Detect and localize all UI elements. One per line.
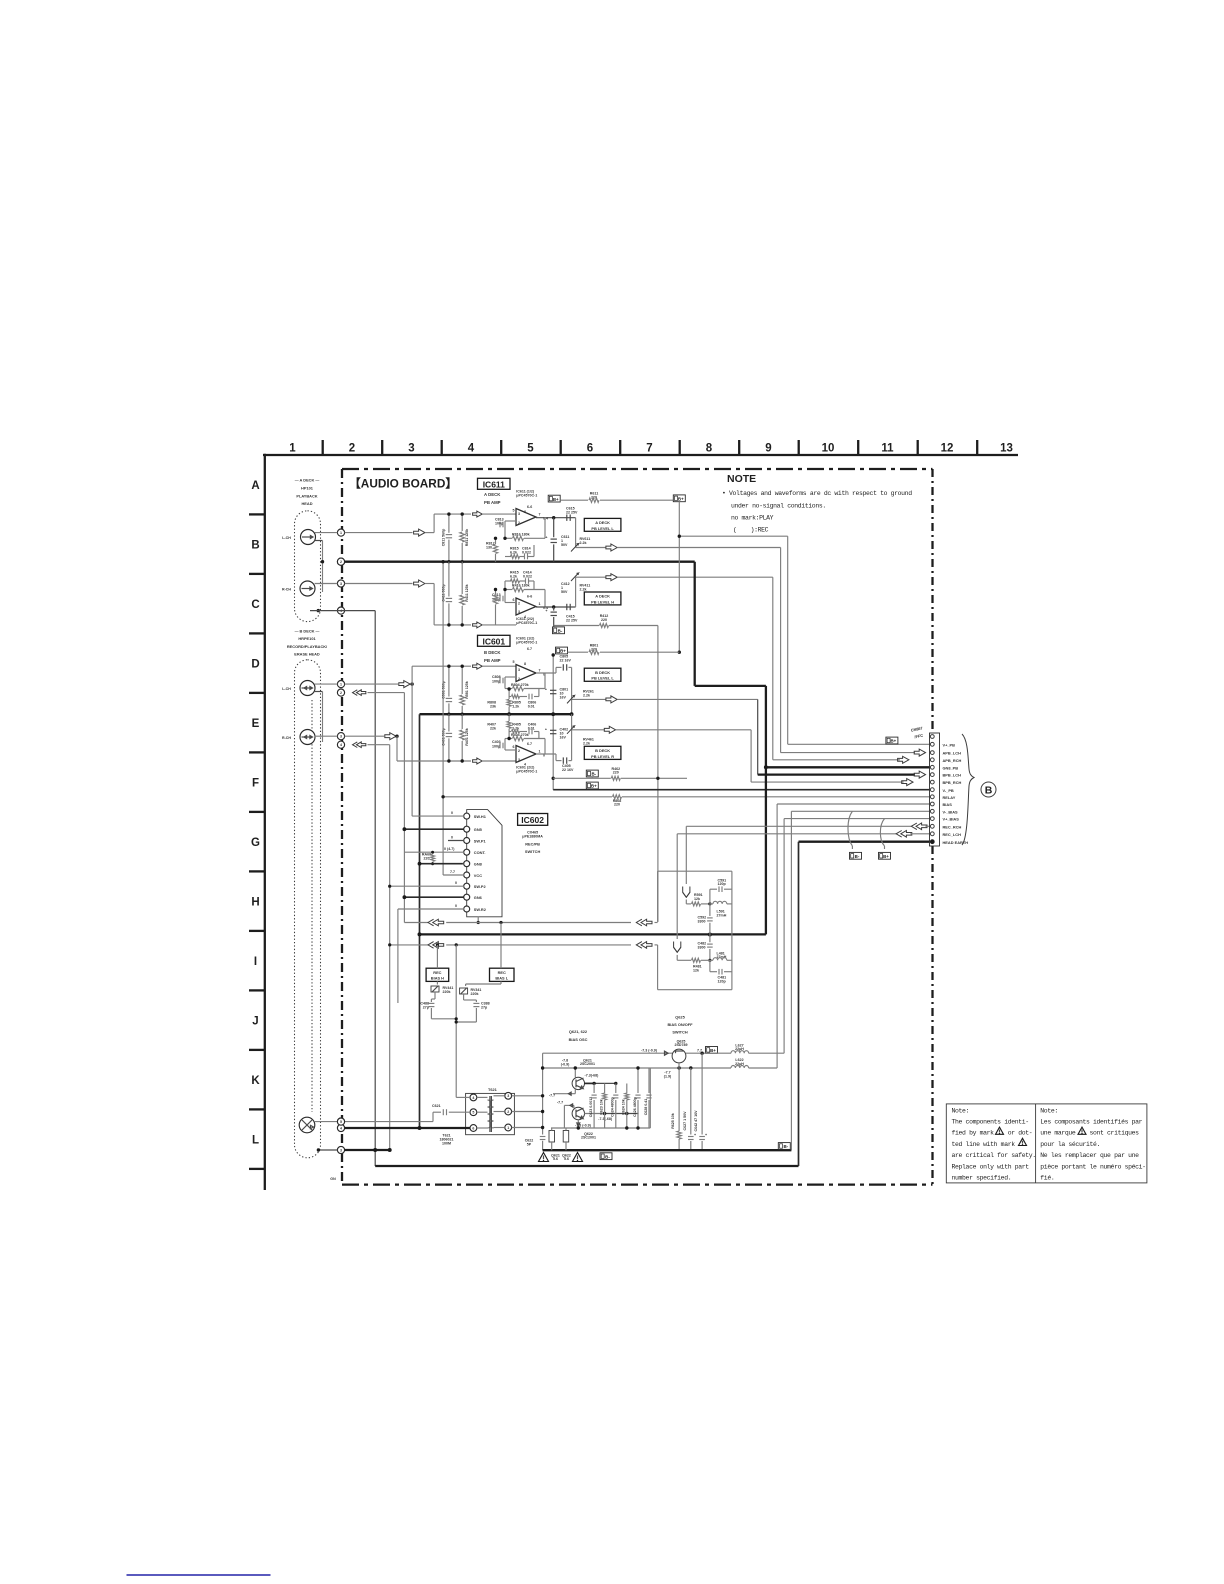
svg-text:220k: 220k (471, 992, 479, 996)
svg-text:C628 0.41: C628 0.41 (644, 1099, 648, 1116)
svg-text:HP101: HP101 (301, 485, 314, 490)
svg-text:130: 130 (486, 546, 492, 550)
transistor Q622 (572, 1107, 584, 1119)
svg-text:PB LEVEL H: PB LEVEL H (591, 599, 614, 604)
svg-text:+: + (705, 1133, 707, 1137)
supply B- box IC611 (553, 627, 565, 634)
wire BIAS vertical (776, 804, 778, 1068)
svg-text:RELAY: RELAY (943, 795, 956, 800)
A deck playback head outline (dotted stadium) (295, 511, 321, 622)
svg-text:50V: 50V (561, 590, 568, 594)
wire B L-CH to rail (410, 683, 412, 685)
wire Q621 emitter to rail (574, 1068, 576, 1078)
svg-text:B+: B+ (891, 739, 897, 744)
svg-text:SW.R2: SW.R2 (474, 907, 487, 912)
border ruler left line (264, 454, 266, 1190)
connector pin RELAY (930, 795, 934, 799)
wire erase head return to T621 pin6 (black) (345, 1127, 470, 1129)
svg-text:BPB_RCH: BPB_RCH (943, 780, 962, 785)
wire T621 top pin to spine (512, 1095, 543, 1097)
svg-text:3: 3 (518, 668, 520, 672)
connector HEAD EARTH pin dot (930, 840, 934, 844)
svg-text:1.2k: 1.2k (512, 704, 519, 708)
transistor Q625 (672, 1049, 686, 1063)
svg-text:PB LEVEL L: PB LEVEL L (591, 526, 614, 531)
svg-text:BIAS ON/OFF: BIAS ON/OFF (667, 1022, 693, 1027)
bias osc component columns C623 R623 C624 R624 C626 C628 (593, 1084, 595, 1094)
svg-text:3300: 3300 (698, 920, 706, 924)
svg-text:6: 6 (587, 443, 593, 455)
svg-text:3: 3 (518, 512, 520, 516)
arrow B R-CH output (572, 729, 605, 731)
svg-text:2: 2 (518, 749, 520, 753)
connector pin HEAD EARTH (930, 840, 934, 844)
wire T621 bottom pin to spine (512, 1127, 543, 1129)
wire bias switch output row with B+ and L627 (706, 1047, 718, 1054)
supply B- box mid bottom (600, 1153, 612, 1160)
supply B+ box IC611 (548, 495, 560, 502)
svg-text:2: 2 (340, 560, 342, 564)
wire APB_LCH route (617, 547, 780, 549)
svg-text:B-: B- (558, 629, 563, 634)
svg-text:9: 9 (765, 443, 771, 455)
svg-text:B+: B+ (591, 784, 597, 789)
svg-text:22k: 22k (490, 726, 496, 730)
svg-text:GN8_PB: GN8_PB (943, 765, 959, 770)
svg-text:The components identi-: The components identi- (952, 1119, 1029, 1126)
wire REC_LCH row (677, 833, 896, 835)
border ruler top line (263, 454, 1018, 456)
wire A L-CH pin1 to input arrow (345, 532, 413, 534)
wire BIAS row (777, 803, 929, 805)
svg-text:5.6: 5.6 (564, 1157, 569, 1161)
REC BIAS H box (426, 968, 449, 981)
svg-text:R623 10k: R623 10k (600, 1099, 604, 1115)
svg-text:T621: T621 (488, 1087, 498, 1092)
A DECK PB LEVEL L box (584, 518, 621, 531)
component column R625 10k (678, 1068, 680, 1131)
svg-text:L-CH: L-CH (282, 536, 291, 540)
electrolytic C801 shunt (550, 689, 556, 691)
svg-text:7: 7 (539, 513, 541, 517)
wire bias feed rail to Q625 (543, 1052, 673, 1054)
svg-text:A DECK: A DECK (595, 520, 610, 525)
svg-text:0: 0 (451, 835, 453, 839)
svg-text:-7.7: -7.7 (557, 1100, 563, 1104)
svg-text:3: 3 (507, 1094, 509, 1098)
svg-text:0: 0 (455, 904, 457, 908)
svg-text:CONT.: CONT. (474, 850, 486, 855)
op-amp IC611b (516, 598, 536, 615)
arrow REC_RCH (911, 823, 917, 830)
svg-text:PB LEVEL L: PB LEVEL L (591, 676, 614, 681)
svg-text:22 16V: 22 16V (560, 659, 572, 663)
svg-text:B+: B+ (710, 1048, 716, 1053)
wire B R-CH head to pin3 (315, 735, 338, 737)
svg-text:B: B (251, 539, 259, 551)
svg-text:2SC2001: 2SC2001 (580, 1062, 595, 1066)
connector pin GN8_PB (930, 765, 934, 769)
wire B R-CH to rail (395, 735, 398, 737)
svg-text:0: 0 (451, 811, 453, 815)
A DECK PB LEVEL H box (584, 592, 621, 605)
wire V+PB row (788, 743, 930, 745)
capacitor C808 (499, 678, 501, 684)
svg-text:under no-signal conditions.: under no-signal conditions. (731, 502, 826, 509)
supply B+ box IC601 (556, 647, 568, 654)
arrow down REC_LCH feed (676, 834, 678, 939)
IC601 label box (478, 635, 511, 646)
svg-text:1: 1 (340, 683, 342, 687)
wire bias rail B- side (543, 1067, 731, 1069)
capacitor C411 (448, 562, 450, 597)
electrolytic C405 series (562, 757, 564, 763)
svg-text:RECORD/PLAYBACK/: RECORD/PLAYBACK/ (287, 644, 328, 649)
B deck inner dotted shield line (311, 700, 313, 1112)
IC602 pin 9 SW.R2 (464, 906, 470, 912)
wire HEAD EARTH row (black) (799, 841, 930, 843)
svg-text:220: 220 (614, 803, 620, 807)
svg-text:BPB_LCH: BPB_LCH (943, 773, 962, 778)
A deck pin 2 overlay (337, 558, 344, 565)
A deck pin 2 (337, 558, 344, 565)
svg-text:B DECK: B DECK (484, 650, 501, 655)
warning triangle left (539, 1153, 549, 1162)
svg-text:B DECK: B DECK (595, 748, 610, 753)
wire IC611b output (536, 606, 576, 608)
arrow A R-CH output (576, 576, 606, 578)
connector pin BPB_LCH (930, 773, 934, 777)
svg-text:B+: B+ (678, 497, 684, 502)
capacitor C413 (499, 596, 501, 602)
svg-text:1: 1 (539, 602, 541, 606)
warning triangle in note left 2 (1019, 1138, 1027, 1145)
wire B+ vertical right (678, 502, 680, 653)
svg-text:C: C (251, 599, 259, 611)
svg-text:L-CH: L-CH (282, 687, 291, 691)
svg-text:R-CH: R-CH (282, 736, 291, 740)
wire B L-CH head to pin1 (315, 683, 338, 685)
connector pin V+_BIAS (930, 817, 934, 821)
wire RELAY row (443, 796, 612, 798)
electrolytic C615 (553, 518, 555, 538)
svg-text:0.01: 0.01 (528, 704, 535, 708)
wire Q622 collector stub (584, 1113, 604, 1115)
svg-text:B+: B+ (560, 649, 566, 654)
electrolytic C611 series (566, 515, 568, 521)
svg-text:220: 220 (601, 618, 607, 622)
connector destination circle B (981, 782, 996, 797)
svg-text:+: + (694, 1133, 696, 1137)
svg-text:23k: 23k (490, 704, 496, 708)
svg-text:+: + (545, 728, 547, 732)
svg-text:number specified.: number specified. (952, 1175, 1012, 1182)
svg-text:H: H (251, 896, 259, 908)
wire B REC L-CH arrow into pin2 (353, 690, 358, 696)
wire REC bias rail to T621 pin4 (456, 1096, 470, 1098)
svg-text:APB_RCH: APB_RCH (943, 758, 962, 763)
svg-text:C627 1 50V: C627 1 50V (683, 1111, 687, 1131)
svg-text:2: 2 (518, 521, 520, 525)
svg-text:1.2k: 1.2k (512, 726, 519, 730)
IC602 pin wires (412, 815, 464, 817)
svg-text:5: 5 (527, 443, 534, 455)
B deck head outline (dotted stadium) (295, 660, 321, 1158)
REC BIAS L box (490, 968, 515, 981)
A deck head R-CH coil (300, 581, 315, 596)
electrolytic C402 shunt (550, 729, 556, 731)
svg-text:12k: 12k (693, 968, 699, 972)
svg-text:R401 125k: R401 125k (465, 728, 469, 746)
wire B ground rail (black) (420, 713, 571, 715)
svg-text:( ):REC: ( ):REC (733, 527, 769, 534)
bias osc frame right wire (649, 1068, 651, 1128)
svg-text:1: 1 (340, 531, 342, 535)
wire A R-CH REC vertical (657, 626, 659, 922)
arrow B L-CH input (399, 681, 410, 688)
audio board border right upper (dash-dot) (931, 469, 933, 733)
svg-text:PB AMP: PB AMP (484, 500, 501, 505)
resistor R622 boxed (563, 1131, 569, 1143)
svg-text:6.7: 6.7 (527, 742, 532, 746)
audio board border right lower (dash-dot) (931, 846, 933, 1185)
svg-text:6: 6 (472, 1126, 474, 1130)
svg-text:PB LEVEL R: PB LEVEL R (591, 754, 614, 759)
wire IC611a output (536, 517, 576, 519)
svg-text:11: 11 (881, 443, 894, 455)
svg-text:G: G (251, 837, 260, 849)
wire APB_RCH route (617, 576, 773, 578)
connector pin APB_LCH (930, 751, 934, 755)
svg-text:1: 1 (507, 1126, 509, 1130)
svg-text:5: 5 (513, 509, 515, 513)
svg-text:C621: C621 (432, 1104, 441, 1108)
B deck head link vertical (314, 691, 323, 693)
feedback resistor R816 (505, 537, 512, 539)
svg-text:B-: B- (783, 1144, 788, 1149)
wire bias chain join (431, 1018, 456, 1020)
svg-text:2.2k: 2.2k (580, 588, 587, 592)
svg-text:220k: 220k (443, 990, 451, 994)
svg-text:100p: 100p (492, 744, 501, 748)
svg-text:4: 4 (340, 743, 342, 747)
svg-text:6: 6 (513, 745, 515, 749)
audio board border bottom (dash-dot) (342, 1183, 933, 1185)
svg-text:R624 10k: R624 10k (622, 1099, 626, 1115)
trimmer RV341 220k (500, 981, 502, 984)
audio board border top (dash-dot) (342, 468, 933, 470)
svg-text:C624 4800p: C624 4800p (611, 1096, 615, 1117)
capacitor C811 (448, 514, 450, 533)
svg-text:3: 3 (340, 1149, 342, 1153)
op-amp IC601b (516, 746, 536, 763)
svg-text:B DECK: B DECK (595, 670, 610, 675)
bias osc collector rails (594, 1082, 616, 1084)
svg-text:fié.: fié. (1040, 1175, 1054, 1182)
component column C627 1 50V (690, 1068, 692, 1135)
wire shield bottom (black) (318, 1149, 337, 1151)
svg-text:6-6: 6-6 (527, 505, 532, 509)
svg-text:V-_BIAS: V-_BIAS (943, 809, 959, 814)
svg-text:3: 3 (518, 610, 520, 614)
svg-text:5P: 5P (527, 1143, 532, 1147)
svg-text:une marque sont critiques: une marque sont critiques (1040, 1130, 1139, 1137)
wire B+ feed to V+PB (679, 535, 787, 537)
svg-text:V+_BIAS: V+_BIAS (943, 817, 960, 822)
capacitor C401 (448, 714, 450, 731)
svg-text:BIAS: BIAS (943, 802, 953, 807)
IC602 pin 4 CONT. (464, 849, 470, 855)
IC602 pin 5 GN8 (464, 861, 470, 867)
svg-text:PLAYBACK: PLAYBACK (296, 493, 317, 498)
svg-text:D: D (251, 658, 259, 670)
svg-text:F: F (252, 777, 259, 789)
IC602 pin 6 VCC (464, 872, 470, 878)
warning triangle right (573, 1153, 583, 1162)
B deck pin 1 (337, 681, 344, 688)
svg-text:A: A (251, 480, 259, 492)
connector CN867 body (930, 733, 940, 846)
op-amp IC611a (516, 509, 536, 526)
supply B- box right end (778, 1143, 790, 1150)
svg-text:0 (4.7): 0 (4.7) (444, 847, 455, 851)
svg-text:R625 10k: R625 10k (671, 1113, 675, 1129)
svg-text:REC_RCH: REC_RCH (943, 824, 962, 829)
wire A ground rail (black) (337, 561, 694, 563)
ruler row ticks (249, 513, 265, 515)
wire V-PB row (black) (553, 789, 929, 791)
IC602 pin 1 SW.H1 (464, 813, 470, 819)
svg-text:REC: REC (498, 970, 506, 975)
wire HEAD EARTH bottom rail (black) (375, 1165, 798, 1167)
svg-text:13: 13 (1000, 443, 1013, 455)
svg-text:REC_LCH: REC_LCH (943, 832, 962, 837)
svg-text:27mH: 27mH (717, 913, 727, 917)
svg-text:22 25V: 22 25V (566, 619, 578, 623)
wire REC row upper with arrows (404, 922, 428, 924)
svg-text:A DECK: A DECK (595, 594, 610, 599)
svg-text:B: B (985, 785, 993, 797)
B deck head L-CH coil (300, 681, 315, 696)
svg-text:R411 125k: R411 125k (465, 584, 469, 601)
connector pin BIAS (930, 802, 934, 806)
arrow BPB_RCH at connector (902, 779, 913, 786)
wire A L-CH head to pin1 (315, 532, 338, 534)
wire REC BIAS L feed (500, 923, 502, 969)
svg-text:— B DECK —: — B DECK — (295, 628, 320, 633)
svg-text:10: 10 (822, 443, 835, 455)
wire supply vertical IC601 (552, 655, 554, 790)
wire B R-CH pin3 to arrow (345, 735, 385, 737)
bias osc left spine wire (542, 1053, 544, 1134)
svg-text:+: + (545, 536, 547, 540)
svg-text:5: 5 (472, 1111, 474, 1115)
svg-text:VCC: VCC (474, 873, 482, 878)
svg-text:B+: B+ (883, 854, 889, 859)
arrow into IC601 pin5 (473, 758, 483, 764)
svg-text:12k: 12k (694, 897, 700, 901)
svg-text:2SD789: 2SD789 (675, 1043, 688, 1047)
transformer T621 pins (470, 1094, 477, 1101)
IC611 label box (478, 478, 511, 489)
svg-text:B-: B- (855, 854, 860, 859)
transformer T621 windings (488, 1100, 492, 1107)
svg-text:μPC4570C-1: μPC4570C-1 (516, 621, 537, 625)
A deck pin 1 (337, 529, 344, 536)
B deck erase head coil (299, 1117, 315, 1133)
svg-text:6-6: 6-6 (527, 595, 532, 599)
resistor R401 (461, 714, 463, 729)
svg-text:7.7: 7.7 (450, 870, 455, 874)
transformer T621 outline (466, 1093, 515, 1134)
svg-text:BIAS L: BIAS L (495, 976, 508, 981)
svg-text:R804 270k: R804 270k (511, 683, 529, 687)
arrow APB_LCH at connector (914, 749, 925, 756)
svg-text:J: J (252, 1015, 258, 1027)
connector pin V-_BIAS (930, 809, 934, 813)
svg-text:2: 2 (518, 602, 520, 606)
wire Q621 base feed (553, 1093, 575, 1095)
svg-text:REC/PB: REC/PB (525, 841, 540, 846)
svg-text:Ne les remplacer que par une: Ne les remplacer que par une (1040, 1152, 1139, 1159)
A deck head L-CH coil (301, 530, 316, 545)
svg-text:220: 220 (424, 856, 430, 860)
svg-text:(1.9): (1.9) (664, 1074, 672, 1078)
svg-text:R581 125k: R581 125k (465, 681, 469, 699)
B DECK PB LEVEL L box (584, 668, 621, 681)
supply B+ box near connector (886, 737, 898, 744)
svg-text:V-_PB: V-_PB (943, 788, 954, 793)
svg-text:+: + (545, 688, 547, 692)
svg-text:C626 4800p: C626 4800p (633, 1096, 637, 1117)
connector pin REC_LCH (930, 832, 934, 836)
svg-text:8: 8 (524, 510, 526, 514)
svg-text:6.7: 6.7 (527, 647, 532, 651)
svg-text:E: E (252, 718, 260, 730)
svg-text:0: 0 (455, 881, 457, 885)
erase pin 5 (337, 1118, 344, 1125)
svg-text:K: K (251, 1075, 260, 1087)
svg-text:GN5: GN5 (474, 827, 483, 832)
svg-text:7.7: 7.7 (697, 1048, 702, 1052)
wire RELAY vertical to gnd rail (442, 562, 444, 875)
arrow B L-CH output (572, 698, 606, 700)
svg-text:IC602: IC602 (521, 815, 544, 825)
svg-text:SW.H1: SW.H1 (474, 814, 487, 819)
capacitor C403 (499, 743, 501, 749)
svg-text:— A DECK —: — A DECK — (295, 478, 320, 483)
wire T621 mid pin to spine (512, 1111, 543, 1113)
wire bus vertical x412 (411, 684, 413, 816)
B deck pin 3 (337, 733, 344, 740)
capacitor C388 27p (463, 994, 465, 1000)
svg-text:100M: 100M (442, 1141, 451, 1145)
connector pin REC_RCH (930, 824, 934, 828)
svg-text:3: 3 (518, 758, 520, 762)
feedback resistor R404 (505, 749, 516, 751)
B deck head R-CH coil (300, 730, 315, 745)
bias osc frame bottom wire (551, 1127, 650, 1129)
wire Q621 collector stub (584, 1082, 594, 1084)
svg-text:GN: GN (330, 1177, 336, 1181)
svg-text:μPC4570C-1: μPC4570C-1 (516, 640, 537, 644)
svg-text:Note:: Note: (952, 1107, 970, 1114)
svg-text:SW.P2: SW.P2 (474, 884, 487, 889)
svg-text:-7.8 (-0.9): -7.8 (-0.9) (575, 1124, 592, 1128)
resistor RA69 220 on CONT (404, 851, 464, 853)
wire V-BIAS row (791, 810, 929, 812)
wire ground rail lower (black) (420, 933, 766, 935)
